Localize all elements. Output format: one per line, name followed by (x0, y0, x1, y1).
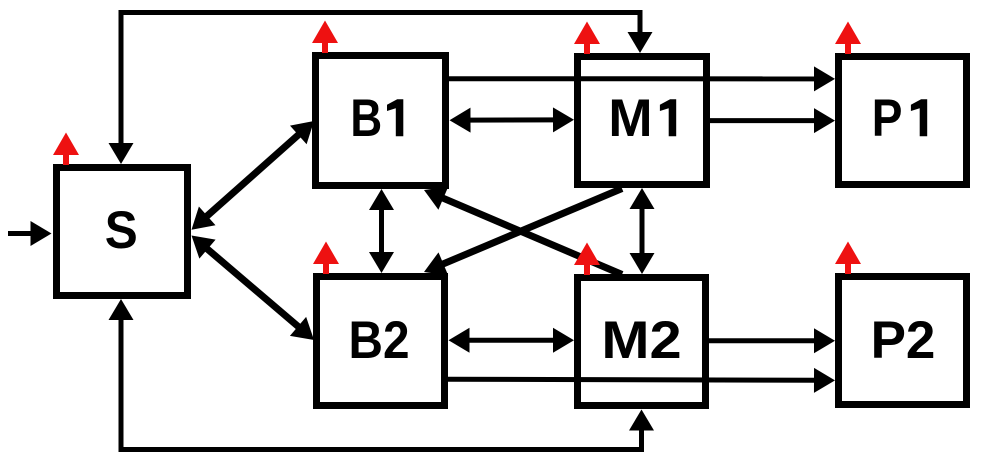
red token arrow above B1 (312, 21, 338, 54)
arrow into S top (109, 143, 134, 164)
svg-text:S: S (105, 201, 138, 260)
svg-text:P: P (872, 89, 903, 148)
box M2 (578, 278, 706, 406)
arrow into S bottom (109, 299, 134, 320)
wire M1-M2 bidirectional (640, 205, 645, 257)
input arrow into S left (8, 231, 35, 236)
red token arrow above B2 (313, 242, 339, 275)
arrow into M2 bottom (629, 410, 654, 431)
wire B1-M1 bidirectional (467, 117, 558, 122)
red token arrow above S (53, 133, 79, 166)
wire S-B2 bidirectional diagonal (204, 247, 301, 330)
red token arrow above M1 (574, 22, 600, 55)
box P1 (839, 57, 967, 185)
wire M1 to P1 (710, 118, 818, 123)
box P2 (839, 277, 967, 405)
box M1 (578, 57, 707, 185)
box B1 (316, 56, 446, 186)
wire B1-B2 bidirectional (379, 206, 384, 256)
wire M1 to B2 diagonal (440, 189, 622, 266)
red token arrow above P2 (835, 242, 861, 275)
svg-text:M2: M2 (601, 311, 681, 370)
arrow into M1 top (628, 32, 653, 53)
wire bottom feedback loop (121, 312, 642, 450)
box S (57, 168, 188, 296)
wire B2-M2 bidirectional (466, 338, 558, 343)
wire B1 to P1 (449, 76, 818, 81)
red token arrow above P1 (835, 22, 861, 55)
svg-text:M: M (608, 89, 652, 148)
wire S-B1 bidirectional diagonal (204, 132, 301, 218)
wire M2 to B1 diagonal (440, 197, 622, 275)
red token arrow above M2 (574, 243, 600, 276)
svg-text:B2: B2 (349, 311, 410, 370)
svg-text:B: B (350, 89, 382, 148)
box B2 (317, 277, 445, 406)
svg-text:P2: P2 (871, 311, 936, 370)
wire top feedback loop (121, 13, 640, 41)
wire B2 to P2 (448, 379, 818, 380)
wire M2 to P2 (709, 338, 818, 343)
